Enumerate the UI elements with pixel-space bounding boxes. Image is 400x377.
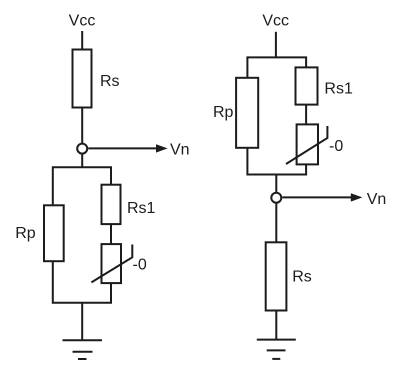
left circuit: [15, 13, 189, 359]
svg-text:Rs: Rs: [292, 268, 312, 285]
wire bottom junction bar (left circuit): [53, 261, 111, 303]
svg-text:Vcc: Vcc: [262, 13, 289, 30]
wire node to Vn arrow (right): [282, 196, 352, 198]
wire Rs1 to thermistor: [110, 224, 112, 244]
svg-text:Rs1: Rs1: [127, 200, 156, 217]
thermistor (right): [286, 124, 327, 164]
resistor Rs (right): [266, 242, 287, 310]
node Vn junction (left): [77, 144, 87, 154]
wire Vcc to Rs: [81, 31, 83, 50]
right circuit: [213, 13, 386, 359]
resistor Rs1 (left): [102, 185, 121, 224]
svg-text:Vn: Vn: [367, 191, 387, 208]
resistor Rs (left): [73, 50, 92, 108]
wire bottom junction bar (right circuit): [247, 148, 306, 175]
wire Rs to ground (right): [275, 311, 277, 340]
svg-text:Vn: Vn: [170, 141, 190, 158]
wire top junction bar (left circuit): [53, 167, 111, 206]
svg-text:Rp: Rp: [213, 104, 234, 121]
ground (right): [257, 340, 296, 359]
resistor Rp (right): [236, 78, 258, 148]
resistor Rp (left): [44, 205, 64, 261]
wire node to parallel section: [81, 154, 83, 168]
ground (left): [63, 340, 103, 359]
wire Rs1 to thermistor (right): [305, 105, 307, 125]
svg-text:Rs: Rs: [100, 73, 120, 90]
wire top junction bar (right circuit): [247, 57, 306, 78]
arrowhead Vn (right): [351, 193, 363, 201]
svg-text:Rs1: Rs1: [324, 80, 353, 97]
wire node to Vn arrow: [88, 147, 157, 149]
svg-text:Rp: Rp: [15, 225, 36, 242]
wire Rs to node: [81, 108, 83, 144]
svg-text:Vcc: Vcc: [69, 13, 96, 30]
wire node to Rs (right): [275, 203, 277, 243]
wire Vcc to top bar: [275, 32, 277, 58]
svg-text:-0: -0: [133, 257, 147, 274]
wire to ground (left): [81, 303, 83, 341]
svg-text:-0: -0: [329, 138, 343, 155]
arrowhead Vn (left): [156, 144, 168, 152]
wire bottom bar to node (right): [275, 175, 277, 193]
thermistor (left): [91, 244, 132, 283]
node Vn junction (right): [271, 193, 281, 203]
resistor Rs1 (right): [296, 67, 318, 104]
